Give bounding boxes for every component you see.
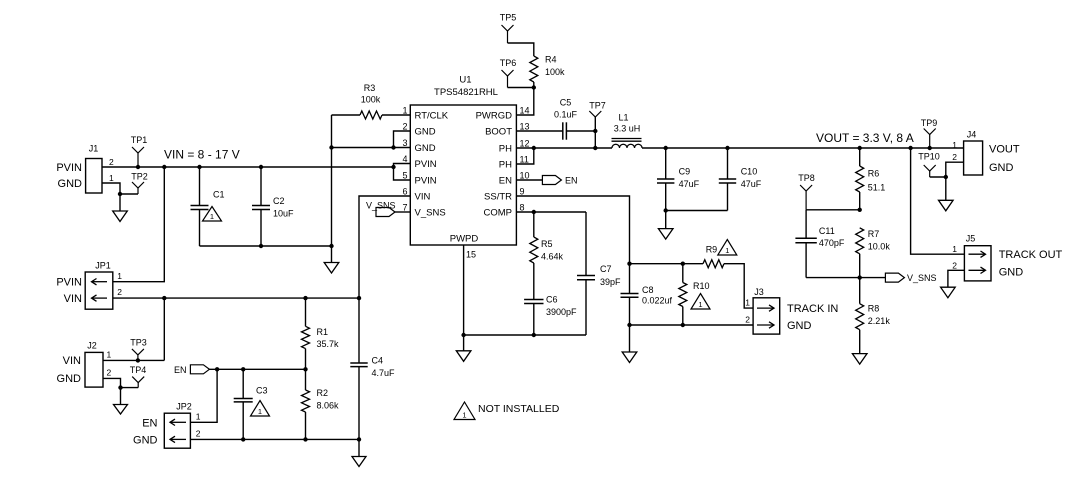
svg-text:PVIN: PVIN <box>415 175 437 186</box>
svg-text:13: 13 <box>520 122 530 132</box>
svg-text:R8: R8 <box>868 304 880 314</box>
svg-text:EN: EN <box>565 176 578 186</box>
svg-text:V_SNS: V_SNS <box>907 273 937 283</box>
svg-text:TP4: TP4 <box>130 365 147 375</box>
svg-text:1: 1 <box>117 271 122 281</box>
svg-text:VIN: VIN <box>415 191 431 202</box>
svg-text:J3: J3 <box>754 287 764 297</box>
svg-text:6: 6 <box>402 187 407 197</box>
svg-text:1: 1 <box>196 412 201 422</box>
svg-text:4: 4 <box>402 154 407 164</box>
svg-text:C2: C2 <box>273 196 285 206</box>
svg-text:TP1: TP1 <box>131 135 148 145</box>
svg-text:PVIN: PVIN <box>56 162 82 174</box>
svg-text:14: 14 <box>520 106 530 116</box>
svg-text:C1: C1 <box>213 190 225 200</box>
svg-text:2: 2 <box>117 287 122 297</box>
svg-text:C10: C10 <box>741 167 758 177</box>
svg-text:GND: GND <box>415 143 436 154</box>
svg-text:C6: C6 <box>546 295 558 305</box>
svg-text:3: 3 <box>402 138 407 148</box>
svg-text:J5: J5 <box>966 234 976 244</box>
svg-text:R9: R9 <box>706 245 718 255</box>
svg-text:J2: J2 <box>87 341 97 351</box>
svg-text:1: 1 <box>107 350 112 360</box>
svg-text:NOT INSTALLED: NOT INSTALLED <box>478 403 560 415</box>
svg-text:U1: U1 <box>459 75 471 86</box>
svg-text:8.06k: 8.06k <box>317 400 340 410</box>
svg-text:47uF: 47uF <box>741 179 762 189</box>
svg-text:SS/TR: SS/TR <box>484 191 512 202</box>
svg-text:10: 10 <box>520 171 530 181</box>
svg-text:C5: C5 <box>560 98 572 108</box>
svg-text:TP9: TP9 <box>921 118 938 128</box>
svg-text:VOUT = 3.3 V, 8 A: VOUT = 3.3 V, 8 A <box>816 131 914 145</box>
svg-text:EN: EN <box>142 418 157 430</box>
svg-text:5: 5 <box>402 171 407 181</box>
svg-text:VOUT: VOUT <box>989 143 1020 155</box>
svg-text:39pF: 39pF <box>600 277 621 287</box>
svg-text:10.0k: 10.0k <box>868 242 891 252</box>
svg-text:PVIN: PVIN <box>56 277 82 289</box>
svg-text:2: 2 <box>109 157 114 167</box>
svg-text:2: 2 <box>952 261 957 271</box>
svg-text:VIN = 8 - 17 V: VIN = 8 - 17 V <box>164 148 240 162</box>
svg-text:2: 2 <box>952 152 957 162</box>
svg-text:4.7uF: 4.7uF <box>372 368 396 378</box>
svg-text:100k: 100k <box>361 95 381 105</box>
svg-text:R1: R1 <box>317 327 329 337</box>
svg-text:1: 1 <box>725 246 729 255</box>
svg-text:1: 1 <box>745 298 750 308</box>
svg-text:R7: R7 <box>868 229 880 239</box>
svg-text:12: 12 <box>520 139 530 149</box>
svg-text:J1: J1 <box>89 144 99 154</box>
svg-text:15: 15 <box>466 250 476 260</box>
svg-text:GND: GND <box>57 373 82 385</box>
svg-text:7: 7 <box>402 203 407 213</box>
svg-text:J4: J4 <box>967 130 977 140</box>
svg-text:1: 1 <box>462 411 466 420</box>
svg-text:JP1: JP1 <box>95 261 111 271</box>
svg-text:8: 8 <box>520 203 525 213</box>
svg-text:1: 1 <box>952 140 957 150</box>
svg-text:R10: R10 <box>693 281 710 291</box>
svg-text:11: 11 <box>520 155 529 165</box>
svg-text:JP2: JP2 <box>176 402 192 412</box>
svg-text:GND: GND <box>989 162 1014 174</box>
svg-text:1: 1 <box>109 173 114 183</box>
svg-text:VIN: VIN <box>64 293 82 305</box>
svg-text:EN: EN <box>174 365 187 375</box>
svg-text:GND: GND <box>999 267 1024 279</box>
svg-text:51.1: 51.1 <box>868 183 886 193</box>
svg-text:4.64k: 4.64k <box>541 252 564 262</box>
svg-text:PVIN: PVIN <box>415 159 437 170</box>
svg-text:R5: R5 <box>541 239 553 249</box>
svg-text:PH: PH <box>499 143 512 154</box>
svg-text:TP5: TP5 <box>500 13 517 23</box>
svg-text:C4: C4 <box>372 356 384 366</box>
svg-text:100k: 100k <box>545 67 565 77</box>
svg-text:PH: PH <box>499 159 512 170</box>
svg-text:TP2: TP2 <box>131 172 148 182</box>
svg-text:TP6: TP6 <box>500 58 517 68</box>
svg-text:R6: R6 <box>868 169 880 179</box>
svg-text:2: 2 <box>107 368 112 378</box>
svg-text:EN: EN <box>499 175 512 186</box>
svg-text:TP10: TP10 <box>918 152 940 162</box>
svg-text:PWRGD: PWRGD <box>476 110 513 121</box>
svg-text:GND: GND <box>58 178 83 190</box>
svg-text:C8: C8 <box>642 285 654 295</box>
svg-text:2: 2 <box>745 315 750 325</box>
svg-text:L1: L1 <box>618 113 628 123</box>
svg-text:RT/CLK: RT/CLK <box>415 110 449 121</box>
svg-text:C3: C3 <box>256 386 268 396</box>
svg-text:TP3: TP3 <box>130 338 147 348</box>
svg-text:2: 2 <box>196 429 201 439</box>
svg-text:PWPD: PWPD <box>450 234 479 245</box>
svg-text:35.7k: 35.7k <box>317 339 340 349</box>
svg-text:VIN: VIN <box>63 355 81 367</box>
svg-text:GND: GND <box>787 320 812 332</box>
svg-text:COMP: COMP <box>484 207 513 218</box>
svg-text:3.3 uH: 3.3 uH <box>614 124 641 134</box>
svg-text:2: 2 <box>402 122 407 132</box>
svg-text:9: 9 <box>520 187 525 197</box>
svg-text:1: 1 <box>952 244 957 254</box>
svg-text:R4: R4 <box>545 55 557 65</box>
svg-text:470pF: 470pF <box>819 238 845 248</box>
svg-text:10uF: 10uF <box>273 209 294 219</box>
svg-text:R2: R2 <box>317 388 329 398</box>
svg-text:TP7: TP7 <box>589 101 606 111</box>
svg-text:C7: C7 <box>600 264 612 274</box>
svg-text:C9: C9 <box>679 167 691 177</box>
svg-text:47uF: 47uF <box>679 179 700 189</box>
svg-text:R3: R3 <box>364 83 376 93</box>
svg-text:TRACK IN: TRACK IN <box>787 303 838 315</box>
svg-text:BOOT: BOOT <box>485 126 512 137</box>
svg-text:1: 1 <box>210 212 214 221</box>
svg-text:0.1uF: 0.1uF <box>554 110 578 120</box>
svg-text:TRACK OUT: TRACK OUT <box>999 249 1063 261</box>
svg-text:V_SNS: V_SNS <box>415 207 446 218</box>
svg-text:1: 1 <box>402 106 407 116</box>
svg-text:0.022uf: 0.022uf <box>642 296 673 306</box>
svg-text:TPS54821RHL: TPS54821RHL <box>434 87 498 98</box>
svg-text:GND: GND <box>415 126 436 137</box>
svg-text:C11: C11 <box>819 226 835 236</box>
svg-text:1: 1 <box>258 407 262 416</box>
svg-text:TP8: TP8 <box>798 173 815 183</box>
svg-text:1: 1 <box>698 300 702 309</box>
svg-text:2.21k: 2.21k <box>868 316 891 326</box>
svg-text:3900pF: 3900pF <box>546 307 577 317</box>
svg-text:GND: GND <box>133 435 158 447</box>
